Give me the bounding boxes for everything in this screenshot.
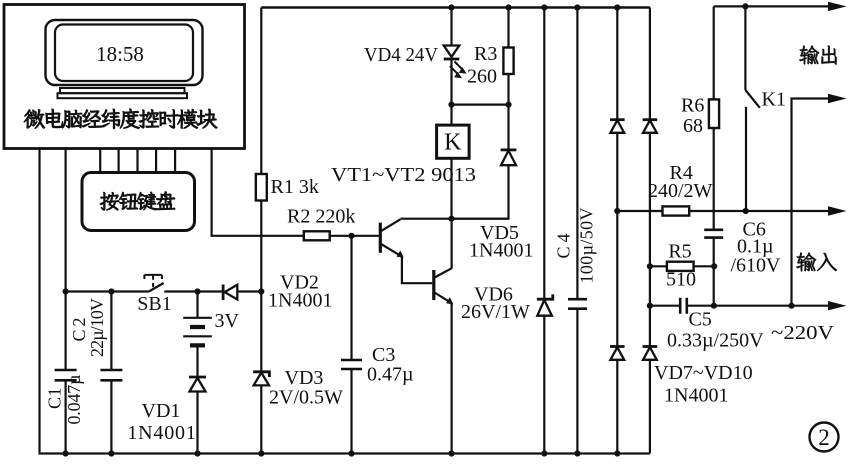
svg-text:C2: C2 xyxy=(69,318,89,342)
node K coil bottom / VT collectors / VD5 return xyxy=(448,216,454,222)
resistor R4 xyxy=(663,206,690,215)
svg-text:68: 68 xyxy=(683,115,703,137)
node VD4 cathode / K coil top xyxy=(448,102,454,108)
svg-text:18:58: 18:58 xyxy=(96,42,144,66)
arrow output live xyxy=(828,2,847,11)
wire SB1 to battery to VD2 xyxy=(164,290,223,292)
wire R2 to VT1 base xyxy=(330,235,379,237)
resistor R1 xyxy=(256,174,267,201)
wire R4 line (input live) xyxy=(617,210,830,212)
LED VD4 xyxy=(444,46,460,57)
top rail xyxy=(261,6,650,8)
svg-text:1N4001: 1N4001 xyxy=(469,240,533,262)
wire R5 line xyxy=(650,265,714,267)
svg-text:R5: R5 xyxy=(668,241,691,263)
capacitor C4 column xyxy=(576,8,578,454)
label 输出 xyxy=(799,45,836,64)
svg-text:VD7~VD10: VD7~VD10 xyxy=(654,362,753,384)
svg-text:SB1: SB1 xyxy=(137,293,171,315)
svg-text:C5: C5 xyxy=(689,309,712,331)
wire R1/VD3 column xyxy=(260,8,262,454)
keyboard label 按钮键盘 xyxy=(100,192,175,211)
module label text 微电脑经纬度控时模块 xyxy=(24,109,218,129)
node bottom rail / C3 xyxy=(348,450,354,456)
zener diode VD3 xyxy=(253,372,269,377)
svg-text:/610V: /610V xyxy=(731,255,782,277)
diode VD2 xyxy=(222,285,225,301)
capacitor C5 xyxy=(680,298,687,314)
wire VD4 column xyxy=(450,8,452,105)
arrow input neutral xyxy=(828,301,847,310)
wire output live top xyxy=(714,5,831,7)
svg-text:C1: C1 xyxy=(45,388,65,410)
svg-text:0.33µ/250V: 0.33µ/250V xyxy=(667,330,764,352)
node bottom rail / VD6 xyxy=(541,450,547,456)
keyboard pin wires xyxy=(100,149,175,173)
svg-text:0.47µ: 0.47µ xyxy=(367,364,414,386)
node battery plus / SB1 wire xyxy=(194,288,200,294)
node R3 bottom / VD5 top xyxy=(505,102,511,108)
node top rail / bridge left column xyxy=(614,4,620,10)
wire VT2 emitter to bottom rail xyxy=(451,303,453,454)
svg-text:VD4 24V: VD4 24V xyxy=(364,44,439,66)
svg-text:R1 3k: R1 3k xyxy=(271,176,319,198)
svg-text:22µ/10V: 22µ/10V xyxy=(87,298,107,357)
svg-text:~220V: ~220V xyxy=(771,322,835,344)
node C2 top / SB1 wire xyxy=(108,288,114,294)
clock display outer shell xyxy=(46,20,203,85)
node bottom rail / VT2 emitter xyxy=(448,450,454,456)
zener diode VD6 column xyxy=(543,8,545,454)
wire VT2 collector xyxy=(451,219,453,269)
svg-text:VD1: VD1 xyxy=(142,400,181,422)
resistor R5 xyxy=(667,262,694,271)
bridge diode VD9 (lower left) xyxy=(610,345,625,348)
svg-text:R3: R3 xyxy=(474,43,497,65)
figure number circled 2 xyxy=(810,423,839,452)
wire module pin 2 / C1 column xyxy=(64,149,66,454)
node bridge right AC / C5 left xyxy=(647,303,653,309)
clock display inner screen xyxy=(55,25,193,82)
node R4 right / K1 bottom xyxy=(743,208,749,214)
node top rail / VD4 branch xyxy=(448,4,454,10)
svg-text:1N4001: 1N4001 xyxy=(664,385,728,407)
resistor R3 xyxy=(503,48,513,75)
wire VT1 collector rail xyxy=(400,218,508,220)
svg-text:100µ/50V: 100µ/50V xyxy=(577,208,597,284)
wire C3 column xyxy=(350,236,352,454)
node bottom rail / VD3 xyxy=(258,450,264,456)
node top rail / C4 branch xyxy=(574,4,580,10)
wire bottom rail xyxy=(38,452,650,454)
switch SB1 blade xyxy=(149,283,164,292)
svg-text:510: 510 xyxy=(666,269,696,291)
module box (microcomputer timing module) xyxy=(4,5,245,149)
svg-text:260: 260 xyxy=(467,66,497,88)
wire module pin 3 riser to R2 wire xyxy=(212,149,304,236)
svg-text:1N4001: 1N4001 xyxy=(127,422,196,444)
node bottom rail / C2 xyxy=(108,450,114,456)
svg-text:0.047µ: 0.047µ xyxy=(64,375,84,425)
diode VD1 xyxy=(189,376,206,379)
switch SB1 actuator xyxy=(144,275,162,279)
node C5 right / snubber column xyxy=(711,303,717,309)
svg-text:240/2W: 240/2W xyxy=(648,180,713,202)
LED arrows xyxy=(455,62,463,70)
clock pedestal xyxy=(60,88,185,93)
wire C2 column xyxy=(110,292,112,454)
node bridge right AC / R5 left xyxy=(647,263,653,269)
wire SB1 feed xyxy=(66,290,149,292)
bridge diode VD7 (upper left) column xyxy=(616,8,618,454)
bridge diode VD8 (upper right) column xyxy=(649,8,651,454)
svg-text:R6: R6 xyxy=(681,95,704,117)
bridge diode VD10 (lower right) xyxy=(643,345,658,348)
node output live / K1 top xyxy=(742,3,748,9)
wire K top link xyxy=(452,103,509,105)
wire module pin 1 (left rail) xyxy=(38,149,40,452)
node C1 top / SB1 feed xyxy=(63,288,69,294)
svg-text:R2 220k: R2 220k xyxy=(287,206,355,228)
wire R6/C6 snubber column xyxy=(713,6,715,305)
node bottom rail / bridge left xyxy=(614,450,620,456)
resistor R2 xyxy=(304,231,330,240)
node R5 right / C6 bottom xyxy=(711,263,717,269)
transistor VT2 xyxy=(432,270,435,300)
arrow input live xyxy=(828,206,847,215)
svg-text:3V: 3V xyxy=(215,310,240,332)
node bottom rail / C4 xyxy=(574,450,580,456)
svg-text:K: K xyxy=(444,130,462,156)
svg-text:VT1~VT2 9013: VT1~VT2 9013 xyxy=(331,164,476,186)
node input neutral / output riser xyxy=(788,303,794,309)
wire R3 column xyxy=(507,8,509,105)
capacitor C2 xyxy=(100,370,122,380)
svg-text:2: 2 xyxy=(818,425,830,450)
wire VT1 emitter to VT2 base xyxy=(402,257,432,284)
node bottom rail / VD1 xyxy=(194,450,200,456)
node top rail / R3 branch xyxy=(505,4,511,10)
relay coil K xyxy=(437,125,470,158)
battery 3V xyxy=(196,292,198,318)
node bridge left AC / R4 left xyxy=(614,208,620,214)
svg-text:2V/0.5W: 2V/0.5W xyxy=(269,387,343,409)
svg-text:K1: K1 xyxy=(762,89,786,111)
node top rail / VD6 branch xyxy=(541,4,547,10)
node bottom rail / C1 xyxy=(63,450,69,456)
diode VD5 xyxy=(507,105,509,150)
arrow output neutral xyxy=(828,94,847,103)
label 输入 xyxy=(796,253,837,272)
svg-text:C4: C4 xyxy=(554,234,574,259)
switch K1 xyxy=(744,6,746,90)
transistor VT1 xyxy=(379,223,382,253)
capacitor C1 xyxy=(55,370,77,380)
svg-text:26V/1W: 26V/1W xyxy=(461,301,530,323)
wire K connections xyxy=(450,105,452,219)
node R2 output / C3 top / VT1 base xyxy=(348,233,354,239)
keyboard box xyxy=(82,173,195,231)
capacitor C6 xyxy=(704,230,723,238)
wire output neutral riser xyxy=(792,99,831,306)
resistor R6 xyxy=(709,99,719,128)
capacitor C3 xyxy=(341,360,362,369)
svg-text:1N4001: 1N4001 xyxy=(268,290,332,312)
wire C5 line (input neutral) xyxy=(650,305,831,307)
node VD2 anode / R1-VD3 column xyxy=(258,288,264,294)
